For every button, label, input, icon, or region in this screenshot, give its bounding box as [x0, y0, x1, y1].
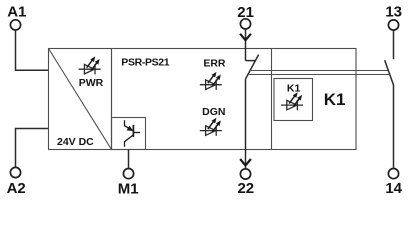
wire contact to terminal 22: [245, 79, 247, 169]
arrow on wire 22: [240, 159, 251, 165]
svg-text:24V DC: 24V DC: [57, 136, 94, 148]
svg-text:PWR: PWR: [79, 77, 104, 89]
relay K1 coil box: [274, 79, 313, 121]
svg-text:M1: M1: [118, 181, 139, 198]
svg-text:DGN: DGN: [202, 106, 225, 118]
svg-text:A2: A2: [7, 180, 26, 197]
power supply U1 box: [49, 49, 112, 150]
svg-text:K1: K1: [324, 90, 346, 109]
wire 14: [393, 85, 395, 169]
arrow on wire 21: [240, 34, 251, 40]
LED ERR: [200, 73, 222, 90]
svg-text:A1: A1: [7, 3, 26, 20]
wire A1 to power supply: [16, 30, 49, 70]
LED DGN: [200, 118, 222, 135]
wire A2 to power supply: [16, 129, 49, 168]
NC contact seat: [246, 60, 256, 62]
LED K1: [281, 93, 303, 110]
terminal A1: [7, 3, 26, 30]
svg-text:13: 13: [385, 3, 402, 20]
terminal M1: [118, 169, 139, 198]
transistor Q1: [125, 120, 141, 147]
terminal 13: [385, 3, 402, 30]
svg-text:14: 14: [385, 180, 402, 197]
power supply diagonal: [49, 49, 112, 150]
terminal A2: [7, 167, 26, 197]
svg-text:K1: K1: [287, 83, 301, 95]
mechanical linkage (double line): [250, 70, 389, 72]
section divider: [271, 49, 273, 150]
NC contact blade: [246, 55, 259, 79]
terminal 22: [237, 169, 254, 197]
svg-text:22: 22: [237, 180, 254, 197]
svg-text:PSR-PS21: PSR-PS21: [121, 56, 169, 68]
wire to M1: [128, 150, 130, 169]
wire 13: [393, 30, 395, 59]
NO contact blade 13-14: [385, 60, 394, 85]
terminal 14: [385, 169, 402, 198]
terminal 21: [237, 4, 254, 29]
wire 21 into box: [245, 29, 247, 61]
LED PWR: [79, 57, 101, 74]
main module box: [112, 49, 357, 150]
transistor output box: [112, 118, 146, 150]
svg-text:ERR: ERR: [203, 58, 226, 70]
